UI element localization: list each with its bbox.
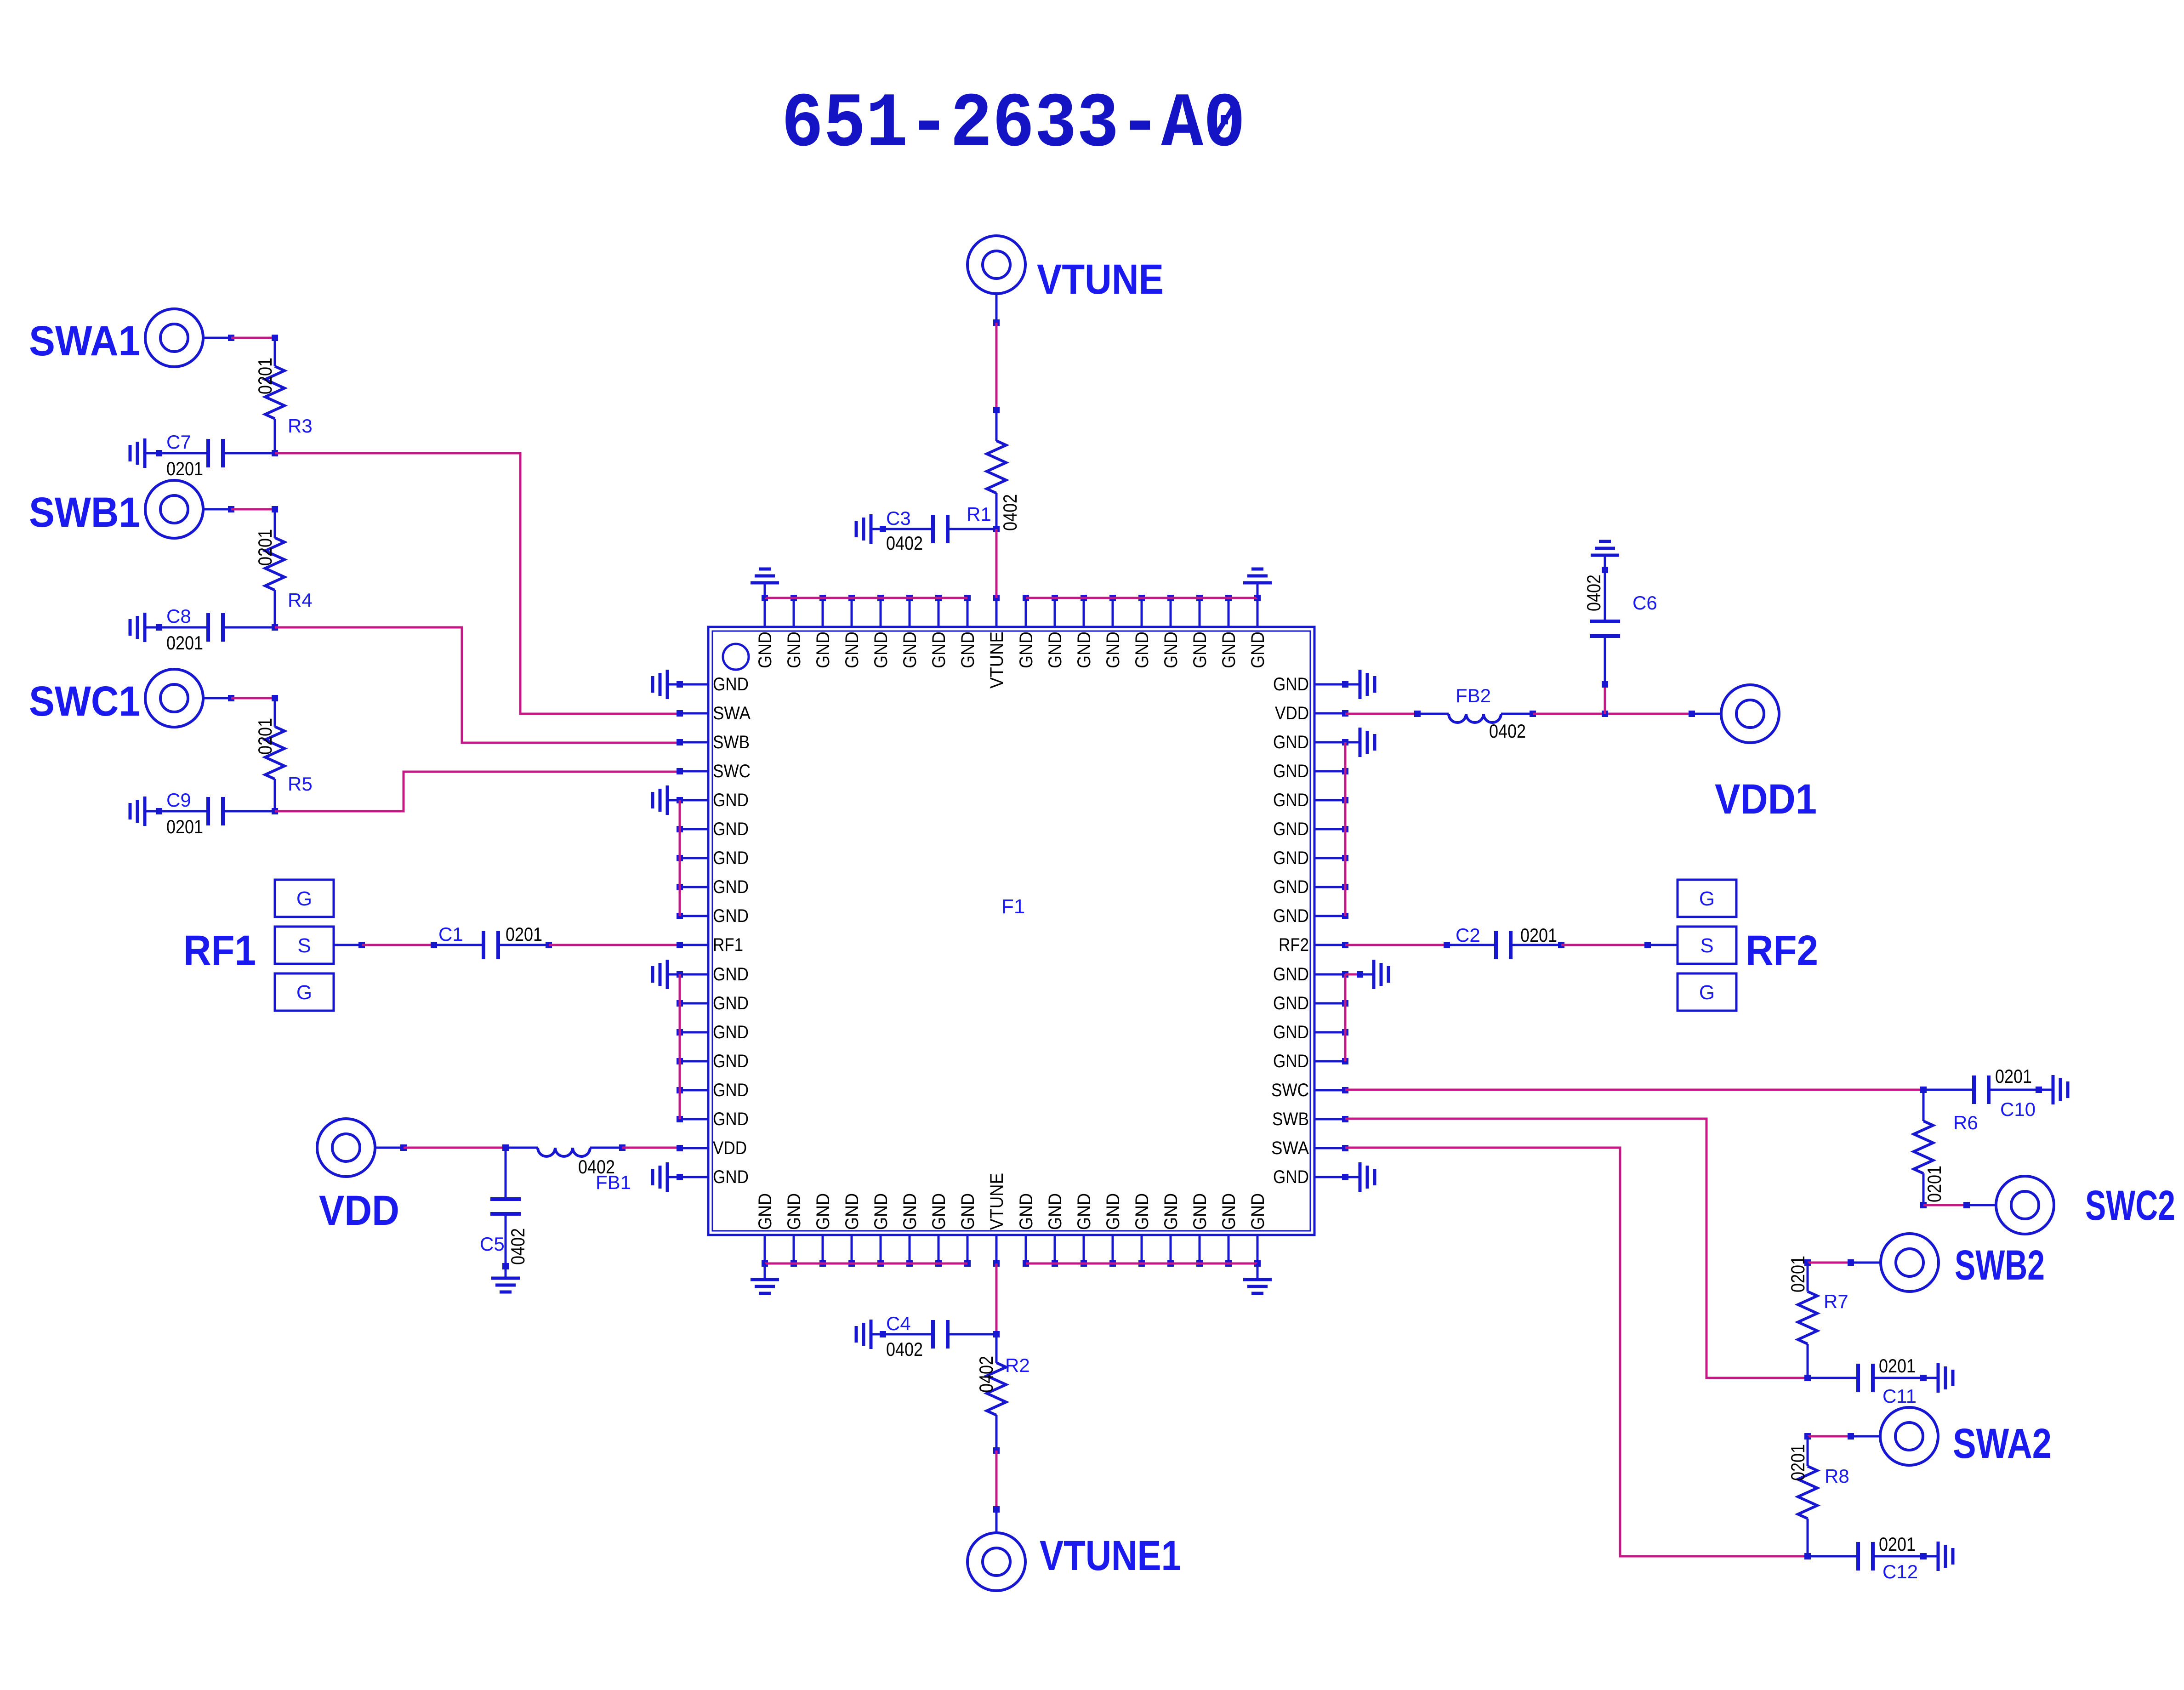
svg-text:SWB: SWB [713, 732, 750, 752]
svg-text:GND: GND [1273, 1022, 1309, 1042]
svg-text:0201: 0201 [254, 529, 276, 566]
svg-text:GND: GND [1248, 1193, 1268, 1230]
svg-text:G: G [296, 981, 312, 1004]
svg-text:GND: GND [713, 1051, 749, 1071]
svg-text:FB1: FB1 [596, 1172, 631, 1193]
svg-text:GND: GND [755, 632, 775, 668]
svg-text:0201: 0201 [1879, 1533, 1916, 1555]
svg-text:GND: GND [1132, 1193, 1152, 1230]
svg-text:GND: GND [1016, 1193, 1036, 1230]
svg-text:0402: 0402 [1489, 720, 1526, 742]
svg-text:SWC: SWC [713, 761, 751, 781]
svg-text:C6: C6 [1632, 592, 1657, 614]
svg-text:GND: GND [1273, 790, 1309, 810]
svg-text:0201: 0201 [1787, 1256, 1809, 1292]
svg-text:G: G [296, 888, 312, 910]
svg-text:VTUNE: VTUNE [987, 1173, 1007, 1230]
svg-text:GND: GND [958, 1193, 978, 1230]
svg-text:R7: R7 [1824, 1291, 1848, 1312]
svg-text:C4: C4 [886, 1313, 911, 1334]
svg-text:0201: 0201 [166, 632, 203, 654]
svg-text:GND: GND [1103, 632, 1123, 668]
svg-text:GND: GND [813, 632, 833, 668]
svg-text:0201: 0201 [1995, 1065, 2032, 1087]
svg-text:0402: 0402 [1583, 575, 1604, 611]
svg-text:R1: R1 [967, 503, 991, 525]
svg-text:GND: GND [1273, 906, 1309, 926]
svg-text:GND: GND [713, 674, 749, 694]
svg-text:GND: GND [1074, 632, 1094, 668]
svg-text:RF2: RF2 [1746, 927, 1818, 974]
svg-text:GND: GND [713, 964, 749, 984]
svg-text:GND: GND [900, 1193, 920, 1230]
svg-text:0201: 0201 [1879, 1355, 1916, 1377]
svg-text:GND: GND [1273, 674, 1309, 694]
svg-text:SWC1: SWC1 [29, 678, 140, 725]
svg-text:651-2633-A0: 651-2633-A0 [781, 81, 1246, 169]
svg-text:G: G [1699, 981, 1715, 1004]
svg-text:GND: GND [1045, 1193, 1065, 1230]
svg-text:C5: C5 [480, 1233, 505, 1255]
svg-text:C10: C10 [2000, 1098, 2036, 1120]
svg-text:GND: GND [713, 1080, 749, 1100]
svg-text:0402: 0402 [886, 532, 923, 554]
svg-text:GND: GND [871, 1193, 891, 1230]
svg-text:GND: GND [1103, 1193, 1123, 1230]
svg-text:GND: GND [1190, 1193, 1210, 1230]
svg-text:0201: 0201 [1520, 924, 1557, 946]
svg-text:GND: GND [1190, 632, 1210, 668]
svg-text:GND: GND [1074, 1193, 1094, 1230]
svg-text:C1: C1 [438, 923, 463, 945]
svg-text:0201: 0201 [254, 718, 276, 755]
svg-text:GND: GND [1273, 877, 1309, 897]
svg-text:GND: GND [871, 632, 891, 668]
svg-text:GND: GND [1132, 632, 1152, 668]
svg-text:C2: C2 [1456, 924, 1480, 946]
svg-text:GND: GND [713, 1167, 749, 1187]
svg-text:GND: GND [900, 632, 920, 668]
svg-text:GND: GND [784, 1193, 804, 1230]
svg-text:VTUNE: VTUNE [1037, 256, 1164, 303]
svg-text:SWC2: SWC2 [2085, 1182, 2175, 1229]
svg-text:GND: GND [1161, 1193, 1181, 1230]
svg-text:SWA1: SWA1 [29, 318, 140, 364]
svg-text:GND: GND [1248, 632, 1268, 668]
svg-text:S: S [1700, 934, 1713, 957]
svg-text:VTUNE: VTUNE [987, 632, 1007, 689]
svg-text:VDD: VDD [713, 1138, 747, 1158]
svg-text:SWA2: SWA2 [1953, 1420, 2052, 1467]
svg-text:C8: C8 [166, 605, 191, 627]
svg-text:GND: GND [713, 790, 749, 810]
svg-text:GND: GND [842, 632, 862, 668]
svg-text:0402: 0402 [999, 494, 1021, 531]
svg-text:GND: GND [1273, 993, 1309, 1013]
svg-text:C9: C9 [166, 789, 191, 811]
svg-text:0201: 0201 [166, 816, 203, 837]
svg-text:GND: GND [713, 848, 749, 868]
svg-text:0201: 0201 [1923, 1166, 1945, 1202]
svg-text:S: S [297, 934, 311, 957]
svg-text:0402: 0402 [886, 1338, 923, 1360]
svg-text:SWA: SWA [1271, 1138, 1309, 1158]
svg-text:SWA: SWA [713, 703, 751, 723]
svg-text:0201: 0201 [506, 923, 542, 945]
svg-text:GND: GND [813, 1193, 833, 1230]
svg-text:GND: GND [1273, 1051, 1309, 1071]
svg-text:FB2: FB2 [1456, 685, 1491, 706]
svg-text:GND: GND [1219, 632, 1239, 668]
svg-text:VTUNE1: VTUNE1 [1040, 1532, 1181, 1579]
svg-text:RF2: RF2 [1279, 935, 1309, 955]
svg-text:R4: R4 [288, 589, 313, 611]
svg-text:RF1: RF1 [183, 927, 256, 974]
svg-text:GND: GND [842, 1193, 862, 1230]
svg-text:GND: GND [1273, 761, 1309, 781]
svg-text:0201: 0201 [254, 358, 276, 394]
svg-text:SWB: SWB [1272, 1109, 1309, 1129]
svg-text:GND: GND [713, 819, 749, 839]
svg-text:GND: GND [1273, 848, 1309, 868]
svg-text:RF1: RF1 [713, 935, 743, 955]
svg-text:GND: GND [713, 906, 749, 926]
svg-text:VDD: VDD [319, 1187, 399, 1234]
svg-text:0201: 0201 [166, 458, 203, 479]
svg-text:VDD1: VDD1 [1715, 776, 1817, 823]
svg-text:GND: GND [1273, 964, 1309, 984]
svg-text:GND: GND [713, 993, 749, 1013]
svg-text:SWC: SWC [1271, 1080, 1309, 1100]
svg-text:GND: GND [1161, 632, 1181, 668]
svg-text:R5: R5 [288, 773, 313, 795]
svg-text:C12: C12 [1883, 1561, 1918, 1582]
svg-text:GND: GND [1273, 1167, 1309, 1187]
svg-text:GND: GND [784, 632, 804, 668]
svg-text:R3: R3 [288, 415, 313, 437]
svg-text:SWB1: SWB1 [29, 489, 140, 536]
svg-text:GND: GND [929, 1193, 949, 1230]
svg-text:GND: GND [958, 632, 978, 668]
svg-text:GND: GND [713, 1022, 749, 1042]
svg-text:C11: C11 [1883, 1385, 1917, 1407]
svg-text:VDD: VDD [1275, 703, 1309, 723]
svg-text:GND: GND [713, 877, 749, 897]
svg-text:0402: 0402 [507, 1228, 529, 1265]
svg-text:GND: GND [1016, 632, 1036, 668]
svg-text:GND: GND [1045, 632, 1065, 668]
svg-text:GND: GND [713, 1109, 749, 1129]
svg-text:R2: R2 [1005, 1354, 1030, 1376]
svg-text:R8: R8 [1825, 1465, 1849, 1487]
svg-text:R6: R6 [1953, 1112, 1978, 1133]
svg-text:GND: GND [929, 632, 949, 668]
svg-text:GND: GND [755, 1193, 775, 1230]
svg-text:0402: 0402 [975, 1356, 997, 1393]
svg-text:C7: C7 [166, 431, 191, 453]
svg-text:C3: C3 [886, 507, 911, 529]
svg-text:GND: GND [1273, 819, 1309, 839]
svg-text:GND: GND [1219, 1193, 1239, 1230]
svg-text:F1: F1 [1001, 895, 1025, 918]
svg-text:GND: GND [1273, 732, 1309, 752]
svg-text:0201: 0201 [1787, 1444, 1809, 1481]
svg-text:SWB2: SWB2 [1955, 1242, 2045, 1289]
svg-text:G: G [1699, 888, 1715, 910]
